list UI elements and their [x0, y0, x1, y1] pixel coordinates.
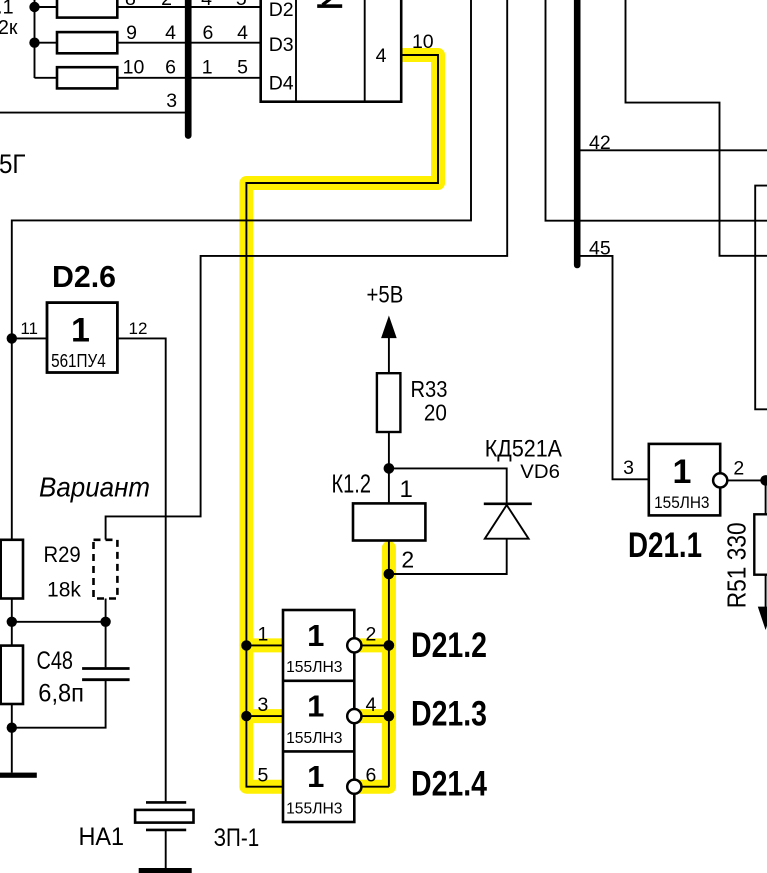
- svg-text:К1.2: К1.2: [332, 469, 372, 499]
- gate D21.4 labels: [286, 759, 342, 817]
- wire: [117, 42, 260, 44]
- wire: right edge C-shape: [755, 186, 767, 410]
- svg-text:11: 11: [20, 319, 38, 338]
- junction dot: [29, 2, 39, 12]
- svg-text:2: 2: [401, 547, 414, 573]
- pin numbers row 3: [123, 57, 249, 79]
- svg-text:1: 1: [257, 623, 268, 645]
- wire: [11, 599, 13, 646]
- svg-text:D4: D4: [269, 73, 294, 95]
- svg-text:8: 8: [125, 0, 136, 10]
- junction dot: [384, 711, 395, 722]
- svg-text:6,8п: 6,8п: [38, 680, 84, 708]
- svg-text:2к: 2к: [0, 17, 18, 39]
- gate D21.2 labels: [286, 618, 342, 676]
- svg-text:ЗП-1: ЗП-1: [214, 824, 260, 852]
- svg-text:1: 1: [673, 453, 692, 491]
- svg-text:155ЛН3: 155ЛН3: [654, 493, 709, 512]
- IC D2.6 box: [47, 303, 117, 373]
- svg-text:R51 330: R51 330: [722, 522, 752, 608]
- inversion bubble pin 4: [347, 709, 361, 723]
- svg-text:C48: C48: [37, 647, 74, 675]
- svg-text:10: 10: [123, 57, 145, 79]
- junction dot: [760, 475, 767, 486]
- svg-text:1: 1: [202, 57, 213, 79]
- wire: [765, 575, 767, 607]
- bus (right, thick): [574, 0, 581, 265]
- junction dot: [29, 38, 39, 48]
- wire: [12, 681, 106, 728]
- svg-text:155ЛН3: 155ЛН3: [286, 800, 342, 817]
- wire to diode top: [389, 468, 507, 502]
- IC symbol mark (partial): [317, 0, 342, 8]
- svg-text:4: 4: [376, 45, 387, 67]
- ground (buzzer): [139, 868, 192, 873]
- wire: [117, 6, 260, 8]
- junction dot: [7, 723, 17, 733]
- svg-text:D21.2: D21.2: [411, 626, 487, 665]
- svg-text:6: 6: [202, 22, 213, 44]
- wire pin 3 to bus: [0, 112, 188, 114]
- resistor (bottom row): [57, 67, 117, 88]
- svg-text:5: 5: [236, 0, 247, 10]
- wire 45 from bus to D21.1 pin 3: [577, 256, 649, 479]
- svg-text:5Г: 5Г: [0, 149, 26, 179]
- wire: [11, 704, 13, 773]
- wire pin 12 down to buzzer: [117, 338, 165, 802]
- svg-text:КД521А: КД521А: [485, 435, 562, 462]
- wire (highlighted net): IC pin 10 down and across to gate inputs: [246, 55, 438, 787]
- IC internal divider: [295, 0, 297, 102]
- wire: [765, 480, 767, 514]
- svg-text:2: 2: [161, 0, 172, 10]
- IC internal divider: [364, 0, 366, 102]
- wire output pin 6: [354, 786, 389, 788]
- gate divider: [283, 679, 354, 682]
- ground (left): [0, 773, 37, 778]
- pin numbers row 1 (cut): [125, 0, 247, 10]
- svg-text:42: 42: [589, 132, 611, 154]
- wire: [165, 830, 167, 868]
- svg-text:4: 4: [201, 0, 212, 10]
- svg-text:HA1: HA1: [79, 823, 125, 851]
- junction dot: [384, 569, 395, 580]
- junction dot: [100, 617, 110, 627]
- IC D box (cut at top): [261, 0, 402, 102]
- IC D21.2-D21.4 box: [283, 610, 354, 822]
- wire: [35, 42, 58, 44]
- wire: [117, 77, 260, 79]
- svg-text:R29: R29: [44, 542, 81, 567]
- resistor (left column lower, cut): [1, 646, 23, 704]
- junction dot: [7, 617, 17, 627]
- relay coil K1.2: [353, 503, 425, 540]
- svg-text:20: 20: [424, 400, 447, 426]
- inversion bubble D21.1: [713, 473, 727, 487]
- wire: [388, 432, 390, 503]
- wire: vertical feed to node row y220 then left and down left rail: [12, 0, 471, 540]
- svg-text:1: 1: [307, 759, 324, 794]
- svg-text:1: 1: [307, 688, 324, 723]
- svg-text:6: 6: [366, 765, 377, 787]
- wire input pin 1: [246, 644, 283, 646]
- resistor (top row, cut): [57, 0, 117, 18]
- svg-text:3: 3: [257, 694, 268, 716]
- junction dot: [241, 640, 251, 650]
- svg-text:2: 2: [733, 458, 744, 480]
- svg-text:+5В: +5В: [367, 281, 404, 308]
- svg-text:1: 1: [400, 476, 413, 503]
- wire: [105, 622, 107, 668]
- gate divider: [283, 750, 354, 753]
- wire (highlighted): outputs vertical rail: [388, 574, 390, 787]
- svg-text:6: 6: [165, 57, 176, 79]
- wire: [34, 0, 36, 78]
- resistor R33: [377, 373, 401, 432]
- wire output pin 4: [354, 715, 389, 717]
- svg-text:1: 1: [307, 618, 324, 653]
- junction dot: [241, 711, 251, 721]
- svg-text:VD6: VD6: [520, 462, 560, 483]
- wire: vertical feed turning right at y220: [546, 0, 767, 221]
- wire 42 from bus to right edge: [577, 149, 767, 151]
- capacitor C48: [82, 669, 130, 680]
- wire: [35, 77, 58, 79]
- wire: [35, 6, 58, 8]
- svg-text:3: 3: [623, 457, 634, 479]
- resistor (middle row): [57, 32, 117, 53]
- svg-text:4: 4: [366, 694, 377, 716]
- svg-text:2: 2: [366, 623, 377, 645]
- junction dot: [7, 333, 17, 343]
- svg-text:155ЛН3: 155ЛН3: [286, 730, 342, 747]
- svg-text:R33: R33: [411, 376, 448, 402]
- diode VD6: [484, 504, 532, 539]
- buzzer HA1: [135, 802, 193, 830]
- highlight: yellow marked net from IC pin 10 to gate inputs: [246, 55, 438, 787]
- svg-text:9: 9: [126, 22, 137, 44]
- svg-text:D21.4: D21.4: [411, 765, 487, 804]
- junction dot: [384, 640, 395, 651]
- svg-text:1: 1: [71, 311, 90, 349]
- pin numbers row 2: [126, 22, 248, 44]
- wire output pin 2: [354, 644, 389, 646]
- svg-text:3: 3: [166, 90, 177, 112]
- wire node row: [12, 621, 106, 623]
- svg-text:4: 4: [237, 22, 248, 44]
- svg-text:D21.3: D21.3: [411, 695, 487, 734]
- svg-text:45: 45: [589, 238, 611, 260]
- svg-text:.1: .1: [0, 0, 14, 19]
- bus (left, thick): [185, 0, 192, 136]
- svg-text:D21.1: D21.1: [628, 526, 702, 565]
- wire: [388, 336, 390, 373]
- svg-text:D3: D3: [269, 34, 294, 56]
- inversion bubble pin 6: [347, 780, 361, 794]
- svg-text:561ПУ4: 561ПУ4: [51, 350, 106, 371]
- junction dot: [384, 463, 395, 474]
- svg-text:D2: D2: [269, 0, 294, 21]
- inversion bubble pin 2: [347, 638, 361, 652]
- wire: top right stair: [626, 0, 767, 256]
- svg-text:5: 5: [237, 57, 248, 79]
- svg-text:4: 4: [165, 22, 176, 44]
- wire input pin 3: [246, 715, 283, 717]
- resistor R29 (variant, dashed): [94, 540, 118, 599]
- wire below R29: [105, 599, 107, 622]
- svg-text:5: 5: [257, 765, 268, 787]
- power arrow up: [381, 316, 397, 339]
- svg-text:155ЛН3: 155ЛН3: [286, 659, 342, 676]
- svg-text:18k: 18k: [47, 578, 81, 602]
- svg-text:12: 12: [129, 319, 148, 338]
- svg-text:Вариант: Вариант: [39, 472, 150, 503]
- wire: vertical feed to node row y256 then to variant resistor R29: [106, 0, 508, 540]
- svg-text:10: 10: [412, 31, 434, 53]
- wire pin 11: [12, 337, 47, 339]
- wire: [388, 541, 390, 575]
- resistor (left column upper, cut): [1, 540, 23, 599]
- wire output pin 2: [720, 479, 765, 481]
- power arrow down: [758, 607, 767, 630]
- IC D21.1 box: [649, 444, 720, 516]
- IC input labels D2 D3 D4: [269, 0, 294, 95]
- gate D21.3 labels: [286, 688, 342, 746]
- svg-text:D2.6: D2.6: [52, 259, 116, 294]
- wire from diode bottom: [389, 539, 507, 574]
- resistor R51 (cut at right): [754, 514, 767, 574]
